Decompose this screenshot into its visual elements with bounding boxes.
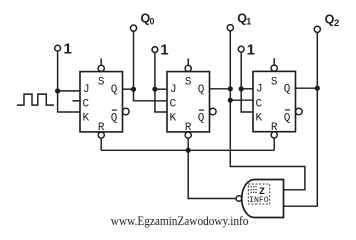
- junction node reset: [186, 148, 191, 153]
- terminal Q0: [130, 12, 154, 32]
- JK flip-flop U1: [80, 72, 123, 134]
- wire: terminal 1 down to node J1K1: [57, 51, 59, 91]
- junction node J1K1: [55, 88, 60, 93]
- wire: node C3 to C input of U3: [230, 99, 253, 101]
- svg-text:INFO: INFO: [249, 196, 269, 205]
- svg-text:Q: Q: [198, 84, 205, 96]
- wire: U2 R bubble down to reset bus: [187, 138, 189, 150]
- clock waveform symbol: [17, 94, 54, 105]
- watermark url text: [111, 213, 249, 228]
- terminal 1 (logic high, FF U1): [55, 40, 72, 57]
- svg-text:J: J: [256, 84, 263, 96]
- U1 S bubble and stub: [98, 58, 104, 71]
- svg-text:Q: Q: [284, 84, 291, 96]
- wire: node to J input of U1: [58, 90, 80, 92]
- U1 inverted output bubble: [123, 108, 130, 115]
- junction node Q0: [131, 87, 136, 92]
- NAND gate G1 (mirrored, output on left): [236, 180, 283, 218]
- junction node Q2: [315, 86, 320, 91]
- junction node Q1: [228, 86, 233, 91]
- wire: terminal 1 down to node J3K3: [240, 52, 242, 89]
- svg-text:Q: Q: [111, 113, 118, 125]
- wire: terminal 1 down to node J2K2: [154, 53, 156, 90]
- svg-text:1: 1: [247, 41, 255, 58]
- wire: node to K input of U2: [155, 89, 167, 112]
- svg-text:K: K: [256, 112, 263, 124]
- U3 R bubble: [271, 132, 277, 138]
- svg-text:1: 1: [246, 17, 251, 27]
- svg-text:1: 1: [64, 40, 72, 57]
- wire: node Q0 up to terminal Q0: [133, 31, 135, 89]
- U1 R bubble: [98, 132, 104, 138]
- svg-text:S: S: [98, 77, 105, 89]
- svg-text:J: J: [170, 84, 177, 96]
- svg-text:Q: Q: [284, 112, 291, 124]
- svg-text:1: 1: [160, 42, 168, 59]
- wire: node Q1 up to terminal Q1: [229, 31, 231, 89]
- svg-text:K: K: [83, 113, 90, 125]
- U3 inverted output bubble: [296, 108, 303, 115]
- wire: node Q1 to NAND input A: [230, 100, 305, 190]
- terminal Q1: [227, 12, 251, 31]
- svg-text:2: 2: [334, 18, 339, 29]
- U3 S bubble and stub: [271, 58, 277, 71]
- wire: node to J input of U3: [241, 88, 253, 90]
- junction node J2K2: [152, 87, 157, 92]
- wire: reset bus: [101, 149, 274, 151]
- svg-text:J: J: [83, 84, 90, 96]
- watermark logo inside gate: [248, 184, 269, 205]
- JK flip-flop U2: [167, 72, 210, 134]
- wire: C input stub of U1: [72, 100, 80, 102]
- junction node C3: [228, 98, 233, 103]
- terminal Q2: [314, 13, 339, 33]
- svg-text:C: C: [83, 99, 90, 111]
- svg-text:Q: Q: [111, 84, 118, 96]
- wire: U2 Q output to node Q1: [210, 88, 231, 90]
- wire: U1 R bubble down to reset bus: [100, 138, 102, 150]
- U2 S bubble and stub: [185, 58, 191, 71]
- svg-text:www.EgzaminZawodowy.info: www.EgzaminZawodowy.info: [111, 213, 249, 228]
- svg-text:Q: Q: [198, 113, 205, 125]
- svg-text:S: S: [271, 76, 278, 88]
- wire: node Q0 down and right to C input of U2: [134, 89, 168, 101]
- U2 inverted output bubble: [210, 108, 217, 115]
- U2 R bubble: [185, 132, 191, 138]
- svg-text:C: C: [256, 98, 263, 110]
- wire: U3 Q output to node Q2: [296, 87, 318, 89]
- wire: U1 Q output to node Q0: [123, 88, 134, 90]
- terminal 1 (logic high, FF U2): [152, 42, 169, 59]
- svg-text:C: C: [170, 99, 177, 111]
- wire: node Q2 to NAND input B: [284, 88, 318, 206]
- wire: node to J input of U2: [155, 88, 167, 90]
- wire: node to K input of U3: [241, 89, 253, 112]
- terminal 1 (logic high, FF U3): [238, 41, 255, 58]
- wire: node Q1 down to node C3: [229, 89, 231, 100]
- svg-text:S: S: [185, 77, 192, 89]
- wire: node Q2 up to terminal Q2: [316, 32, 318, 88]
- junction node J3K3: [239, 86, 244, 91]
- JK flip-flop U3: [253, 71, 296, 133]
- svg-text:K: K: [170, 113, 177, 125]
- wire: reset bus up to U3 R bubble: [273, 138, 275, 150]
- wire: node to K input of U1: [58, 91, 80, 112]
- svg-text:0: 0: [150, 17, 155, 27]
- wire: NAND output to reset node: [188, 150, 236, 198]
